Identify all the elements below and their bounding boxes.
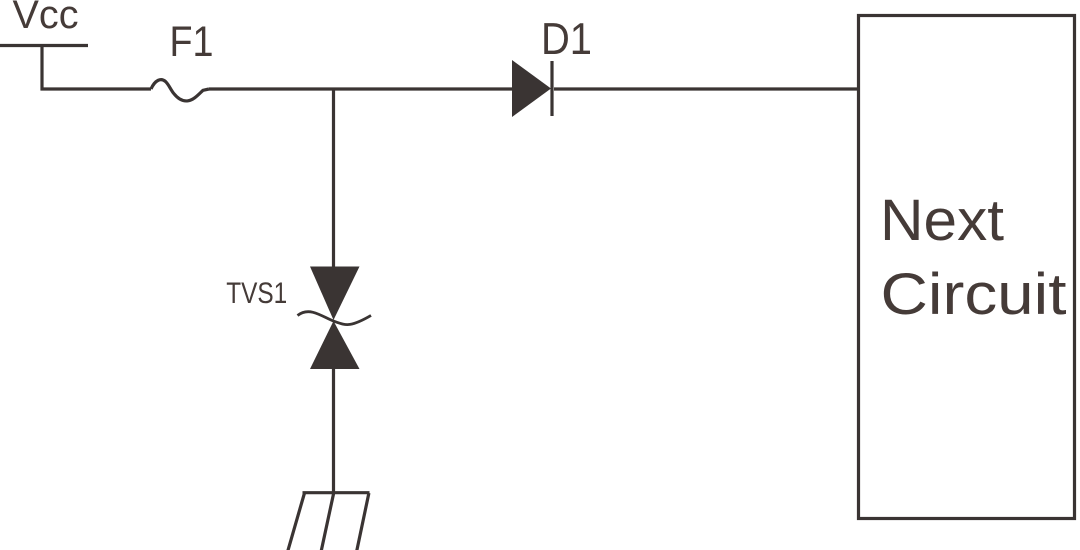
svg-text:Next: Next <box>880 188 1004 253</box>
svg-text:D1: D1 <box>541 15 592 64</box>
svg-text:TVS1: TVS1 <box>226 277 287 310</box>
svg-text:F1: F1 <box>170 19 214 66</box>
svg-text:Circuit: Circuit <box>881 262 1067 327</box>
svg-text:Vcc: Vcc <box>13 0 79 37</box>
